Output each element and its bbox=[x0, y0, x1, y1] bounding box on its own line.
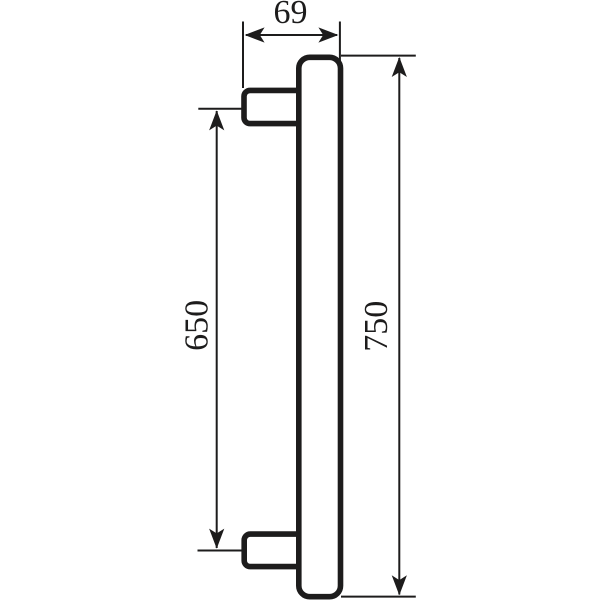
svg-text:750: 750 bbox=[358, 301, 395, 352]
svg-text:69: 69 bbox=[274, 0, 308, 31]
svg-text:650: 650 bbox=[179, 300, 216, 351]
